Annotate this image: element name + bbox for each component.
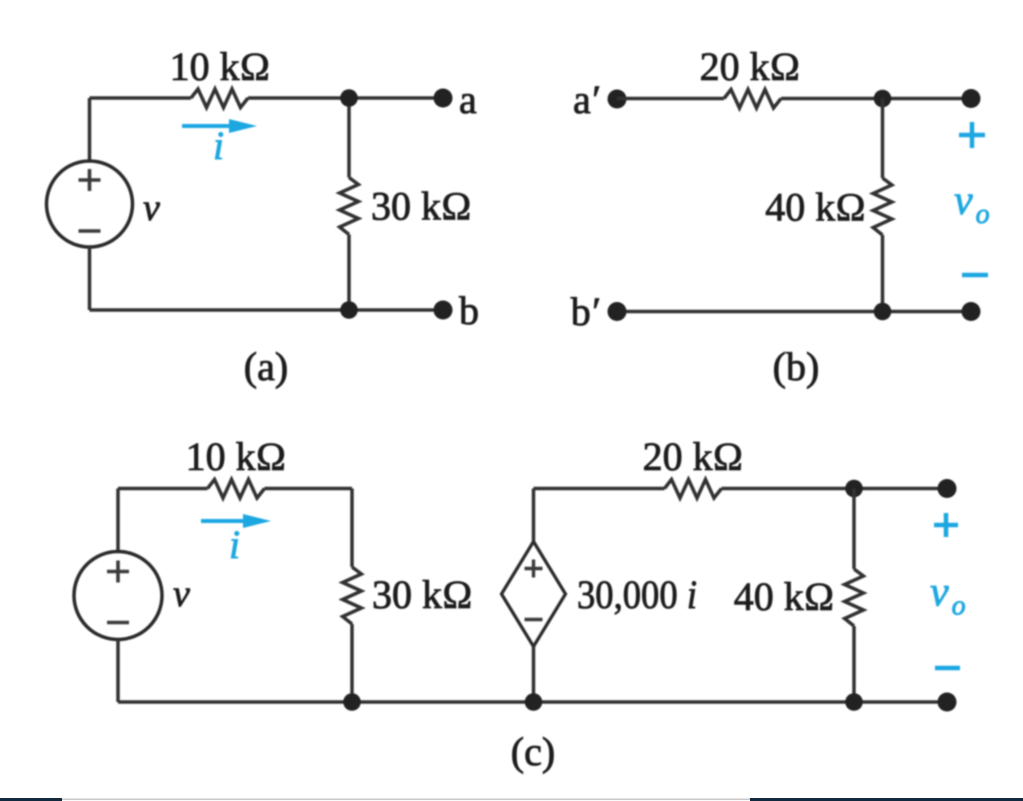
node dot bottom of 40k (b) [874,303,892,321]
resistor 30 kOhm (a) [340,178,359,235]
wire: 30k upper lead (a) [347,98,351,178]
wire: 40k upper lead (c) [852,489,856,570]
terminal dot bottom right (b) [962,302,981,321]
svg-text:(a): (a) [244,344,288,389]
current arrow i (c) [201,519,245,523]
svg-text:b: b [459,288,479,333]
svg-text:20 kΩ: 20 kΩ [700,44,801,89]
wire: top wire right segment (b) [781,97,971,101]
svg-text:30,000 i: 30,000 i [577,572,697,617]
resistor 10 kOhm (a) [191,89,248,108]
wire: bottom wire (b) [617,310,971,314]
resistor 40 kOhm (b) [873,178,892,235]
wire: top wire left segment (a) [90,96,192,100]
svg-text:40 kΩ: 40 kΩ [734,574,835,619]
svg-text:i: i [213,123,224,168]
svg-text:30 kΩ: 30 kΩ [371,184,472,229]
node dot bottom of 30k (c) [343,693,361,711]
node dot below dependent source (c) [525,693,543,711]
svg-text:a: a [459,77,477,122]
node dot top of 40k (b) [874,90,892,108]
svg-text:20 kΩ: 20 kΩ [643,434,744,479]
minus sign of source (c) [107,621,129,625]
plus polarity vo (b) [959,133,985,138]
terminal dot b [434,301,453,320]
minus polarity vo (b) [962,273,988,278]
wire: top wire left of 20k (c) [534,487,665,491]
wire: top wire right of 20k (c) [722,487,948,491]
wire: left vertical bottom (a) [88,247,92,311]
minus sign of dependent source (c) [525,618,543,621]
resistor 10 kOhm (c) [208,480,265,499]
voltage source v (a) [47,161,133,247]
resistor 20 kOhm (b) [724,90,781,109]
terminal dot top right (c) [938,479,957,498]
wire: left vertical top (a) [88,98,92,162]
wire: 30k lower lead (a) [347,235,351,311]
svg-text:10 kΩ: 10 kΩ [170,44,271,89]
minus polarity vo (c) [935,666,960,671]
resistor 40 kOhm (c) [845,569,864,626]
plus sign of source (c) [107,570,129,574]
terminal dot b' [608,302,627,321]
plus polarity vo (c) [934,523,958,528]
svg-text:40 kΩ: 40 kΩ [765,185,866,230]
wire: 40k lower lead (b) [881,235,885,312]
plus sign of dependent source (c) [525,567,543,570]
resistor 20 kOhm (c) [665,480,722,499]
bottom bar navy left [0,798,62,801]
node dot bottom of 40k (c) [845,693,863,711]
svg-text:vo: vo [954,178,990,230]
svg-text:a′: a′ [573,77,601,122]
node dot top of 30k (a) [340,89,358,107]
current arrow i (a) [182,124,235,128]
resistor 30 kOhm (c) [343,567,362,624]
wire: dependent source top lead (c) [532,489,536,542]
wire: bottom wire (a) [90,308,444,312]
bottom bar navy right [750,798,1023,801]
dependent source 30,000i (c) [502,542,566,647]
terminal dot a' [608,90,627,109]
svg-text:(c): (c) [511,729,555,774]
wire: left vertical bottom (c) [116,640,120,703]
wire: top wire left segment (b) [617,97,724,101]
wire: 30k lower lead (c) [350,624,354,702]
wire: top wire right segment to 30k corner (c) [265,487,353,491]
wire: top wire left segment (c) [118,487,208,491]
terminal dot a [434,89,453,108]
terminal dot top right (b) [962,89,981,108]
terminal dot bottom right (c) [938,693,957,712]
svg-text:v: v [143,187,160,229]
wire: left vertical top (c) [116,489,120,552]
bottom rule gray [0,799,1023,801]
wire: 40k upper lead (b) [881,99,885,179]
svg-text:10 kΩ: 10 kΩ [186,434,287,479]
node dot top of 40k (c) [845,480,863,498]
wire: 40k lower lead (c) [852,626,856,702]
svg-text:30 kΩ: 30 kΩ [372,572,473,617]
plus sign of source (a) [79,178,101,182]
svg-text:i: i [229,522,240,567]
wire: bottom wire (c) [118,700,947,704]
wire: dependent source bottom lead (c) [532,647,536,703]
wire: top wire right segment (a) [248,96,443,100]
minus sign of source (a) [79,229,101,233]
svg-text:vo: vo [930,570,966,622]
svg-text:b′: b′ [571,289,601,334]
wire: 30k upper lead (c) [350,489,354,568]
svg-text:(b): (b) [773,344,820,389]
svg-text:v: v [173,573,190,615]
voltage source v (c) [74,552,162,640]
node dot bottom of 30k (a) [340,301,358,319]
